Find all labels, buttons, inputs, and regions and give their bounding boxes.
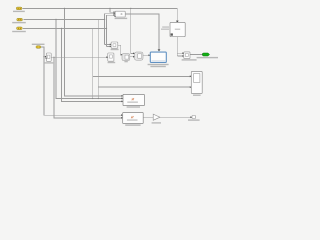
label scope line2 (150, 66, 165, 67)
block M1 (108, 53, 114, 61)
arrowhead M0 in1 (110, 44, 112, 46)
arrowhead bus B1 in2 (114, 13, 116, 15)
label S1 (44, 62, 53, 63)
wire vertical x106.5 B1 in3 / M0 in2 (107, 15, 114, 46)
wire x64.5 down to SS1 in1 (65, 8, 122, 96)
label V1 (193, 95, 201, 96)
wire M0 output to G1 in1 (118, 45, 121, 55)
junction at (130.8,8.4) (130, 8, 131, 9)
label T left line2 (161, 29, 169, 30)
arrowhead terminator input (190, 116, 192, 118)
scope (blue) (150, 52, 166, 62)
junction at (64.5,8.4) (64, 8, 65, 9)
arrowhead scope top input (158, 49, 161, 51)
arrowhead bus B1 in1 (114, 11, 116, 13)
label SS2 (125, 124, 140, 125)
label M1 (108, 62, 116, 63)
block W1 (184, 52, 190, 59)
wire S1 output to M1 (51, 56, 106, 58)
label M0 (111, 49, 119, 50)
label P4 Regelabweichung (32, 44, 45, 45)
wire branch to G2 in1 (131, 8, 134, 53)
junction dots (43, 8, 131, 99)
arrowhead SS1 in3 (121, 101, 123, 103)
label B1 (115, 18, 128, 19)
wire x92.7 down, branch to switch V1 in1 (93, 28, 190, 98)
wire Inport4 down to SS2 in1 (41, 47, 121, 115)
pin stub bus B1 in4 (114, 15, 115, 17)
arrowhead bus B1 in3 (114, 14, 116, 16)
inport P1 (yellow) (16, 7, 22, 10)
arrowhead M1 input (106, 56, 108, 58)
junction at (92.7,98.5) (92, 98, 93, 99)
wire G1 output to G2 in2 (130, 56, 134, 58)
wire x98.3 down, branch to switch V1 in2 (98, 19, 190, 98)
label W1 (182, 59, 197, 60)
wire C line from Inport3 (23, 27, 107, 29)
arrowhead G1 in1 (121, 54, 123, 56)
pin stub S1 in2 (46, 57, 47, 59)
label goto (197, 57, 218, 58)
block G1 (122, 54, 130, 61)
wire B line from Inport2 (24, 18, 105, 20)
wire x61.5 down to SS1 in3 (62, 28, 122, 101)
block M0 (111, 42, 118, 48)
inport P2 (yellow) (17, 18, 23, 21)
arrowhead into block T top (176, 21, 179, 23)
wire vertical x104.6 B1 in2 / M0 in1 (105, 14, 114, 45)
junction at (106.5,28.4) (106, 28, 107, 29)
label T left line1 (162, 27, 169, 28)
arrowhead SS2 in1 (121, 114, 123, 116)
label P3 (12, 31, 26, 32)
label scope line1 (148, 64, 169, 65)
junction at (110,8.4) (109, 8, 110, 9)
wire x56 down to SS1 in2 (56, 19, 122, 98)
junction at (98.3,98.5) (98, 98, 99, 99)
arrowhead S1 in1 (45, 56, 47, 58)
arrowhead SS2 in2 (121, 117, 123, 119)
wire gain output to terminator (160, 116, 191, 118)
junction at (104.6,19.4) (104, 19, 105, 20)
label G1 (124, 61, 127, 62)
junction at (56,19.4) (55, 19, 56, 20)
junction at (44,56.8) (43, 56, 44, 57)
label gain (152, 122, 161, 123)
label terminator (188, 119, 200, 120)
subsystem SS1 (123, 94, 144, 105)
wire A branch down to bus B1 in1 (110, 8, 114, 12)
block G2 (135, 52, 144, 60)
label P2 (12, 22, 26, 23)
arrowhead goto tag input (202, 53, 204, 55)
label P1 (13, 11, 25, 12)
arrowheads (45, 11, 204, 119)
wire W1 output to green goto (190, 53, 202, 55)
gain triangle (153, 114, 160, 120)
wire B1 output to scope top (125, 14, 159, 50)
arrowhead switch V1 in2 (190, 86, 192, 88)
wire branch into S1 (44, 56, 45, 58)
arrowhead switch V1 in1 (190, 75, 192, 77)
arrowhead G2 in1 (133, 53, 135, 55)
wire T output down to W1 inputs (177, 37, 182, 56)
arrowhead SS1 in1 (121, 95, 123, 97)
wire x54 down to SS2 in2 (54, 57, 121, 118)
inport P4 (yellow) (36, 46, 41, 48)
arrowhead SS1 in2 (121, 98, 123, 100)
bus creator B1 (115, 11, 125, 17)
wire SS2 output to gain (143, 116, 153, 118)
goto tag (green) (203, 53, 210, 56)
arrowhead G2 in2 (133, 56, 135, 58)
junction at (61.5,28.4) (61, 28, 62, 29)
manual switch V1 (191, 71, 202, 93)
wire A line from Inport1 to block T (23, 8, 178, 21)
arrowhead W1 in1 (182, 52, 184, 54)
block T (170, 22, 185, 36)
wire G2 output to scope left (143, 54, 149, 56)
arrowhead W1 in2 (182, 55, 184, 57)
subsystem SS2 (123, 113, 144, 124)
inport P3 (yellow) (17, 27, 23, 30)
label SS1 (127, 106, 140, 107)
terminator (192, 116, 196, 119)
arrowhead scope left input (149, 54, 151, 56)
junction at (54,57.3) (53, 57, 54, 58)
block S1 (46, 53, 51, 61)
arrowhead M0 in2 (110, 46, 112, 48)
